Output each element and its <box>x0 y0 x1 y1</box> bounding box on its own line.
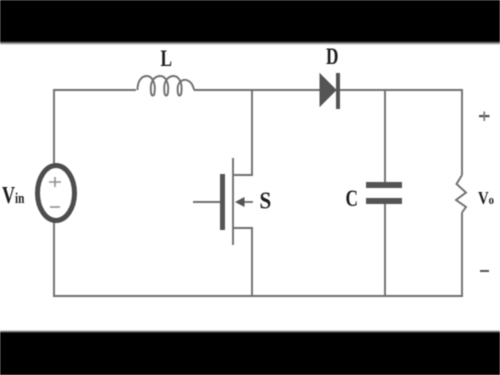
resistor load (zigzag) <box>456 175 466 213</box>
capacitor C plates <box>366 182 402 204</box>
wire: MOSFET source vertical <box>251 228 253 297</box>
label D <box>326 45 338 70</box>
minus output terminal <box>480 270 489 272</box>
wire: MOSFET drain vertical (junction on top rail) <box>251 90 253 175</box>
wire: capacitor branch lower <box>384 204 386 297</box>
svg-text:L: L <box>161 47 173 72</box>
wire: right rail upper (corner to resistor) <box>461 89 463 175</box>
source Vin (ellipse) <box>38 166 75 221</box>
gate lead <box>193 201 220 203</box>
top letterbox bar <box>0 0 500 41</box>
diode D (anode left, cathode bar right) <box>320 73 340 109</box>
channel line <box>232 158 234 245</box>
wire: capacitor branch upper <box>384 90 386 182</box>
label C <box>346 187 358 212</box>
drain horizontal <box>233 174 253 176</box>
plus output terminal <box>479 112 490 122</box>
gate bar <box>220 174 225 230</box>
label S <box>260 187 272 214</box>
bottom letterbox bar <box>0 333 500 375</box>
label L <box>161 47 173 72</box>
inductor L (coil) <box>138 76 195 96</box>
source horizontal <box>233 227 253 229</box>
transistor S (MOSFET) <box>193 158 253 245</box>
label Vo <box>478 188 494 209</box>
minus inside source <box>50 206 60 208</box>
wire: bottom rail <box>53 295 463 297</box>
plus inside source <box>49 177 61 187</box>
wire: right rail lower (resistor to bottom corner) <box>461 213 463 298</box>
wire: top rail between inductor and diode <box>194 89 320 91</box>
svg-text:C: C <box>346 187 358 212</box>
svg-text:Vin: Vin <box>2 182 25 209</box>
wire: top rail left segment (corner to inductor) <box>54 90 136 296</box>
svg-text:D: D <box>326 45 338 70</box>
label Vin <box>2 182 25 209</box>
svg-text:Vo: Vo <box>478 188 494 209</box>
svg-text:S: S <box>260 187 272 214</box>
wire: top rail from diode to top-right corner <box>339 89 462 91</box>
body lead with arrow <box>240 201 253 203</box>
